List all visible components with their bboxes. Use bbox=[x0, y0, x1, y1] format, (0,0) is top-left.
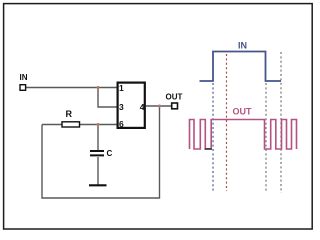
svg-text:OUT: OUT bbox=[233, 107, 253, 117]
svg-text:3: 3 bbox=[119, 102, 124, 112]
svg-text:IN: IN bbox=[20, 73, 28, 82]
svg-text:R: R bbox=[66, 109, 73, 119]
svg-text:OUT: OUT bbox=[166, 93, 183, 102]
svg-text:6: 6 bbox=[119, 119, 124, 129]
svg-text:IN: IN bbox=[238, 41, 247, 51]
svg-text:4: 4 bbox=[140, 102, 145, 112]
svg-text:C: C bbox=[107, 149, 113, 158]
svg-text:1: 1 bbox=[119, 83, 124, 93]
